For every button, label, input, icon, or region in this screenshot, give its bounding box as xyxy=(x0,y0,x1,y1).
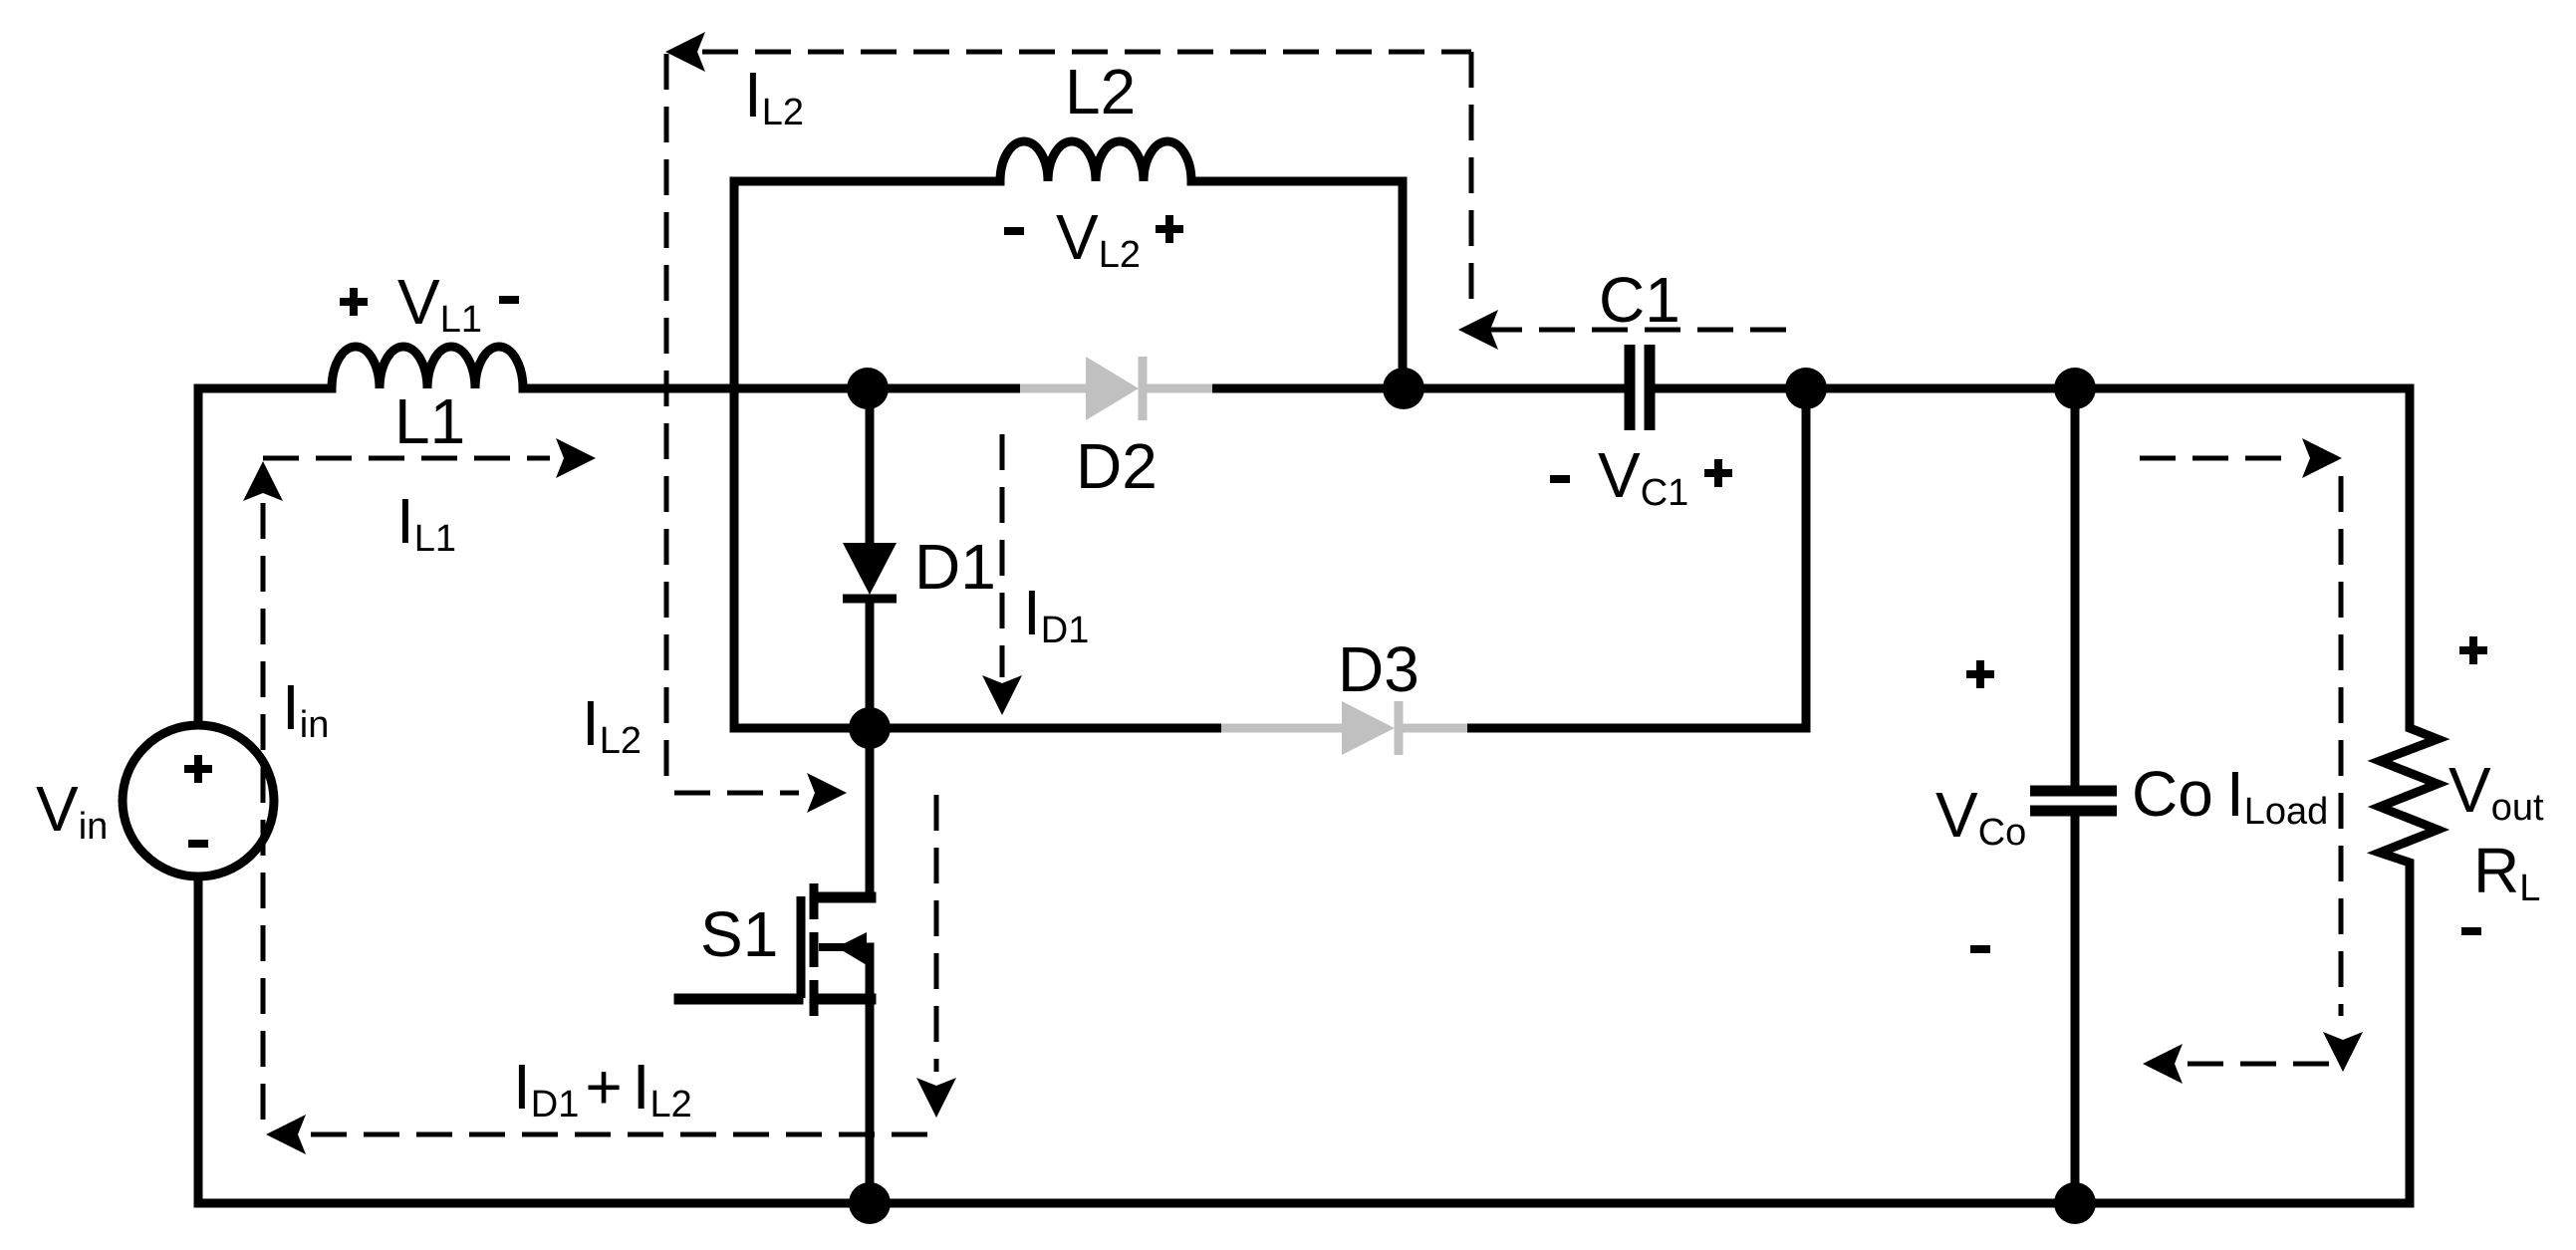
svg-text:L2: L2 xyxy=(1065,56,1136,127)
svg-text:D1: D1 xyxy=(914,531,996,603)
svg-text:S1: S1 xyxy=(700,898,778,970)
svg-text:D3: D3 xyxy=(1338,633,1419,705)
svg-text:Co: Co xyxy=(2132,758,2213,830)
svg-text:D2: D2 xyxy=(1076,430,1158,502)
svg-text:C1: C1 xyxy=(1599,264,1680,336)
svg-text:L1: L1 xyxy=(394,385,465,457)
